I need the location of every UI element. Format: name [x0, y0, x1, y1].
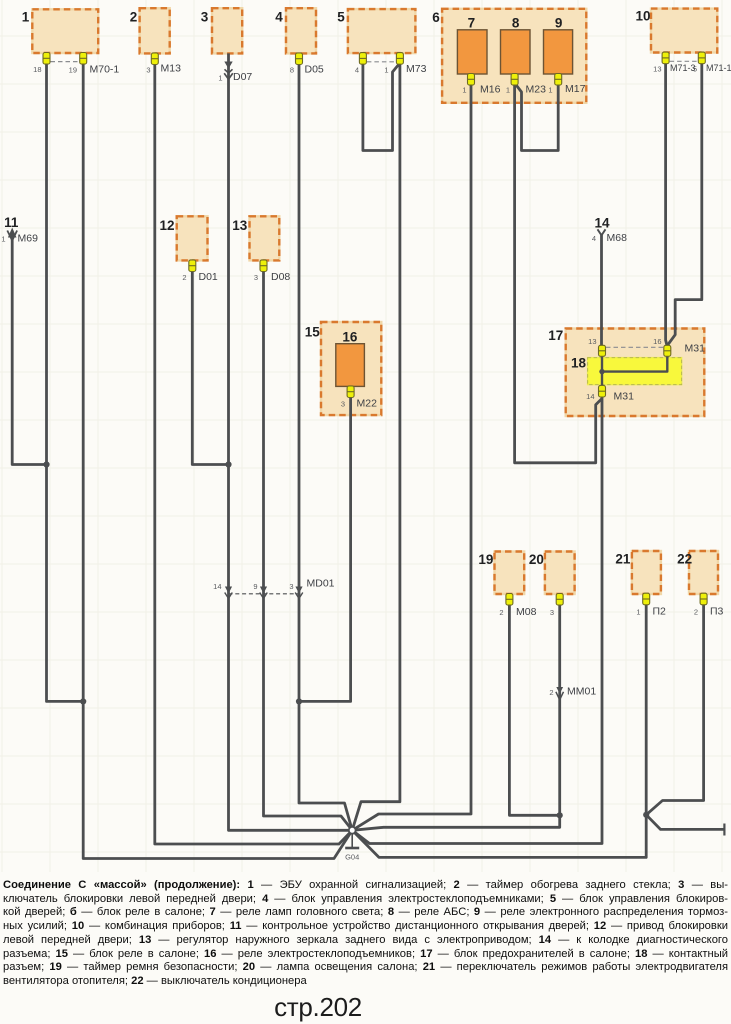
pin 14 of U17 — [599, 385, 606, 397]
svg-text:D08: D08 — [271, 271, 290, 283]
svg-text:14: 14 — [594, 216, 610, 231]
wire U3/D07 to ground G04 — [229, 53, 353, 830]
svg-text:M13: M13 — [161, 63, 182, 75]
pin 3 of K16 — [347, 386, 354, 398]
svg-text:9: 9 — [253, 582, 257, 591]
relay K8 (реле АБС) — [501, 30, 531, 74]
relay K7 (реле ламп головного света) — [457, 30, 487, 74]
wire U14/M68 down to U17 pin13 — [600, 234, 603, 347]
pin 3 of U13 — [260, 260, 267, 272]
svg-text:8: 8 — [290, 66, 294, 75]
svg-text:21: 21 — [615, 552, 631, 567]
wire U21/P2 to ground G04 — [352, 603, 646, 857]
svg-text:M08: M08 — [516, 606, 537, 618]
svg-text:16: 16 — [653, 337, 661, 346]
junction U12+U3 — [225, 461, 231, 467]
svg-text:20: 20 — [529, 552, 544, 567]
svg-text:3: 3 — [146, 66, 150, 75]
connector MD01 fork on U4 wire — [295, 587, 302, 594]
svg-text:11: 11 — [4, 215, 19, 230]
svg-text:M17: M17 — [565, 83, 586, 95]
junction U11+U1pin18 — [43, 461, 49, 467]
wire inside X18: pin13 to pin14 — [601, 356, 603, 388]
svg-text:6: 6 — [432, 10, 440, 25]
svg-text:1: 1 — [462, 86, 466, 95]
pin 1 of U21 — [643, 593, 650, 605]
wire U2/M13 to ground G04 — [155, 63, 352, 844]
svg-text:13: 13 — [588, 337, 596, 346]
svg-text:M16: M16 — [480, 84, 501, 96]
wire U10 pin13/M71-3 down to U17 pin16 — [666, 62, 668, 347]
svg-text:2: 2 — [499, 608, 503, 617]
svg-text:D07: D07 — [233, 71, 252, 83]
svg-text:18: 18 — [33, 65, 41, 74]
svg-text:22: 22 — [677, 552, 692, 567]
pin 1 of K7 — [468, 74, 475, 86]
svg-text:14: 14 — [586, 392, 594, 401]
connector line pins 13-16 of U17 — [606, 346, 663, 348]
wire U13/D08 to ground G04 — [264, 268, 353, 830]
block U12 (привод блокировки двери) — [177, 216, 208, 260]
svg-text:D05: D05 — [305, 64, 324, 76]
connector MD01 dashed line — [229, 593, 302, 595]
block U1 (ЭБУ охранной сигнализации) — [32, 9, 98, 53]
connector fork D07 (arrow down into fork) — [224, 62, 232, 69]
svg-text:M69: M69 — [18, 233, 39, 245]
wire K16/M22 down then left joining U4 wire — [299, 396, 351, 701]
pin 3 of U2 — [151, 53, 158, 65]
svg-text:1: 1 — [636, 608, 640, 617]
svg-text:3: 3 — [550, 608, 554, 617]
svg-text:16: 16 — [342, 330, 358, 345]
block U6 (блок реле в салоне) — [442, 9, 586, 103]
svg-text:3: 3 — [289, 582, 293, 591]
svg-text:M73: M73 — [406, 63, 427, 75]
block U4 (блок управления стеклоподъемниками) — [286, 8, 316, 53]
block U13 (регулятор зеркала) — [250, 216, 280, 260]
pin 2 of U22 — [700, 593, 707, 605]
block U3 (выключатель блокировки двери) — [212, 8, 242, 53]
pin 1 of K8 — [511, 74, 518, 86]
svg-text:G04: G04 — [345, 853, 359, 862]
svg-text:4: 4 — [355, 66, 359, 75]
wire K9/M17 U-link to M23 pin — [515, 83, 559, 151]
wire U22/P3 down then diagonal joining U21 wire — [646, 603, 703, 815]
svg-text:M31: M31 — [685, 343, 706, 355]
connector bar X18 (контактный разъем) — [588, 358, 682, 385]
svg-text:M22: M22 — [357, 398, 378, 410]
svg-text:М71-1: М71-1 — [706, 63, 731, 73]
wire U12/D01 down then right joining U3 wire — [192, 268, 228, 465]
svg-text:M31: M31 — [614, 391, 635, 403]
pin 19 of U1 — [80, 53, 87, 65]
svg-text:П2: П2 — [653, 606, 667, 618]
svg-text:13: 13 — [232, 218, 248, 233]
connector line pins 13-5 of U10 — [670, 60, 698, 62]
pin 1 of U5 — [396, 53, 403, 65]
junction inside X18 — [599, 369, 604, 374]
svg-text:19: 19 — [478, 552, 493, 567]
wire U19/M08 down then right joining U20 wire — [509, 603, 559, 815]
junction U1pin18+pin19 — [80, 698, 86, 704]
ground G04 stem — [351, 834, 353, 848]
wire U5 pin1/M73 to ground G04 — [352, 62, 400, 830]
wire U1 pin18 down then right to pin19 wire — [47, 62, 84, 701]
svg-text:M68: M68 — [607, 232, 628, 244]
pin 13 of U10 — [662, 52, 669, 64]
svg-text:15: 15 — [305, 325, 321, 340]
relay K16 (реле электростеклоподъемников) — [336, 344, 365, 387]
wire U20 to ground G04 — [352, 603, 560, 830]
svg-text:П3: П3 — [710, 606, 724, 618]
block U17 (блок предохранителей в салоне) — [566, 329, 705, 417]
svg-text:1: 1 — [506, 86, 510, 95]
block U22 (выключатель кондиционера) — [689, 551, 718, 594]
pin 8 of U4 — [296, 53, 303, 65]
svg-text:19: 19 — [69, 66, 77, 75]
svg-text:8: 8 — [512, 16, 520, 31]
svg-text:13: 13 — [653, 65, 661, 74]
svg-text:1: 1 — [218, 74, 222, 83]
svg-text:MD01: MD01 — [307, 578, 335, 590]
wire U10 pin5/M71-1 down left down to U17 pin16 — [667, 62, 702, 346]
svg-text:2: 2 — [130, 10, 138, 25]
connector fork M69 (arrow up) — [7, 231, 17, 241]
svg-text:17: 17 — [548, 328, 563, 343]
svg-text:1: 1 — [384, 66, 388, 75]
svg-text:4: 4 — [275, 10, 283, 25]
block U19 (таймер ремня безопасности) — [495, 552, 525, 595]
svg-text:18: 18 — [571, 356, 587, 371]
terminal tick at right edge — [723, 824, 725, 836]
pin 4 of U5 — [359, 53, 366, 65]
pin 1 of K9 — [555, 74, 562, 86]
svg-text:9: 9 — [555, 16, 563, 31]
block U21 (переключатель вентилятора) — [632, 551, 661, 594]
svg-text:М71-3: М71-3 — [670, 63, 696, 73]
wire inside X18: pin16 column to pin13/14 column — [602, 356, 667, 372]
block U20 (лампа освещения салона) — [545, 552, 575, 595]
svg-text:2: 2 — [694, 608, 698, 617]
svg-text:1: 1 — [548, 86, 552, 95]
svg-text:5: 5 — [337, 10, 345, 25]
wire U11/M69 down then right joining pin18 wire — [12, 237, 46, 465]
svg-text:14: 14 — [213, 582, 221, 591]
ground G04 bar — [345, 847, 359, 850]
pin 2 of U12 — [189, 260, 196, 272]
pin 2 of U19 — [506, 594, 513, 606]
pin 13 of U17 — [599, 345, 606, 356]
svg-text:1: 1 — [22, 10, 30, 25]
block U2 (таймер обогрева заднего стекла) — [140, 8, 170, 53]
connector MD01 fork on U3 wire — [225, 587, 232, 594]
svg-text:D01: D01 — [199, 271, 218, 283]
wire U4/D05 to ground G04 — [299, 63, 352, 830]
wire U5 pin4 U-link to pin1 — [363, 62, 400, 151]
junction U22+edge+U21 — [643, 812, 649, 818]
wire X18 pin14/M31 to ground G04 — [352, 397, 602, 844]
relay K9 (реле распределения тормозных усилий) — [544, 30, 573, 74]
svg-text:1: 1 — [1, 235, 5, 244]
svg-text:M70-1: M70-1 — [90, 64, 120, 76]
svg-text:10: 10 — [635, 9, 650, 24]
svg-text:3: 3 — [341, 400, 345, 409]
svg-text:3: 3 — [201, 10, 209, 25]
connector line pins 18-19 of U1 — [51, 61, 80, 63]
pin 18 of U1 — [43, 53, 50, 65]
block U5 (блок управления блокировкой дверей) — [348, 9, 416, 53]
wire K7/M16 to ground G04 — [352, 83, 471, 830]
connector fork MM01 on U20 wire — [556, 687, 563, 694]
wire U1 pin19 to ground G04 — [83, 62, 352, 859]
svg-text:3: 3 — [254, 273, 258, 282]
block U15 (блок реле в салоне) — [321, 322, 381, 415]
svg-text:M23: M23 — [526, 84, 547, 96]
ground G04 node circle — [349, 827, 356, 834]
junction U19+U20 — [557, 812, 563, 818]
svg-text:7: 7 — [468, 16, 476, 31]
wire from right edge terminal joining U21 wire — [646, 815, 724, 830]
pin 3 of U20 — [556, 594, 563, 606]
svg-text:MM01: MM01 — [567, 686, 596, 698]
svg-text:2: 2 — [549, 688, 553, 697]
connector fork M68 — [598, 229, 606, 235]
pin 5 of U10 — [698, 52, 705, 64]
block U10 (комбинация приборов) — [651, 9, 717, 53]
junction M22+U4 — [296, 698, 302, 704]
pin 16 of U17 — [664, 345, 671, 356]
svg-text:12: 12 — [159, 218, 174, 233]
svg-text:2: 2 — [182, 273, 186, 282]
connector line pins 4-1 of U5 — [367, 61, 396, 63]
connector MD01 fork on U13 wire — [260, 587, 267, 594]
svg-text:4: 4 — [592, 234, 596, 243]
wire K8/M23 down right and up to X18 pin14 — [515, 83, 602, 463]
